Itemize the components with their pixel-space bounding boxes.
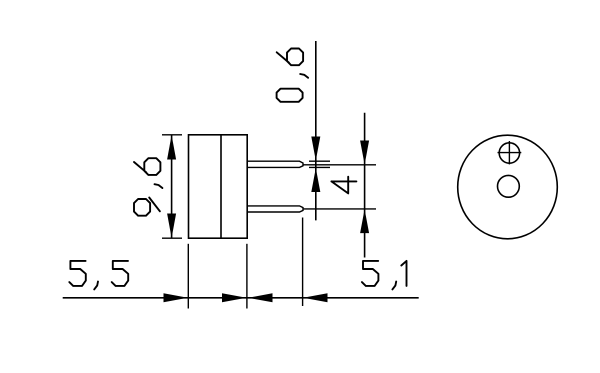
dimension 9,6: upper arrow	[167, 135, 176, 160]
top view: polarity hole with cross	[499, 143, 519, 163]
dimension 9,6: lower arrow	[167, 214, 176, 239]
dimension text 9,6 (rotated): digit 9	[134, 198, 160, 216]
dimension 9,6: bottom end tick	[162, 237, 182, 239]
dimension text 5,5: first 5	[69, 261, 86, 286]
top view: sound hole circle	[498, 175, 520, 197]
dimension text 5,5: second 5	[112, 261, 128, 286]
dimension text 5,5: comma	[94, 282, 98, 290]
top view: outer circle	[458, 135, 558, 239]
cross horizontal line	[498, 152, 522, 154]
dimension 0,6: lower arrow pointing up	[311, 168, 320, 192]
dimension text 9,6: comma	[155, 184, 163, 188]
extension line from body right edge	[246, 244, 248, 309]
dimension text 0,6: comma	[300, 74, 308, 78]
dimension 4: upper arrow pointing down	[360, 141, 369, 165]
dimension text 5,1: digit 1	[401, 261, 406, 286]
dimension text 0,6 (rotated): digit 0	[277, 89, 303, 102]
dimension 4: lower arrow pointing up	[360, 209, 369, 233]
dimension 5,1: left arrow pointing right	[222, 293, 246, 302]
dimension 5,5: right arrow pointing left	[248, 293, 273, 302]
dimension text 0,6: digit 6	[277, 49, 303, 66]
bottom horizontal dimension line	[63, 297, 419, 299]
dimension text 4 (rotated)	[331, 177, 356, 194]
pin edge extension line upper	[309, 160, 330, 162]
dimension 4: extension line from bottom pin center	[304, 208, 377, 210]
dimension 4: vertical dimension line	[364, 113, 366, 258]
dimension 0,6: vertical dimension line	[315, 41, 317, 220]
bottom pin	[247, 206, 303, 212]
dimension 0,6: upper arrow pointing down	[311, 137, 320, 161]
component body outline	[189, 135, 248, 238]
dimension 9,6: vertical dimension line	[171, 135, 173, 238]
dimension text 5,1: comma	[392, 282, 396, 290]
dimension text 9,6: digit 6	[134, 158, 160, 175]
dimension 5,5: left arrow pointing right	[164, 293, 188, 302]
dimension 9,6: top end tick	[162, 134, 182, 136]
dimension text 5,1: digit 5	[362, 261, 379, 286]
extension line from pin end	[302, 218, 304, 307]
extension line from body left edge	[187, 244, 189, 309]
cross vertical line	[508, 141, 510, 164]
top pin	[247, 161, 303, 167]
body internal divider line	[220, 135, 222, 238]
pin edge extension line lower	[309, 166, 330, 168]
dimension 5,1: right arrow pointing left	[303, 293, 327, 302]
dimension 4: extension line from top pin center	[304, 164, 377, 166]
